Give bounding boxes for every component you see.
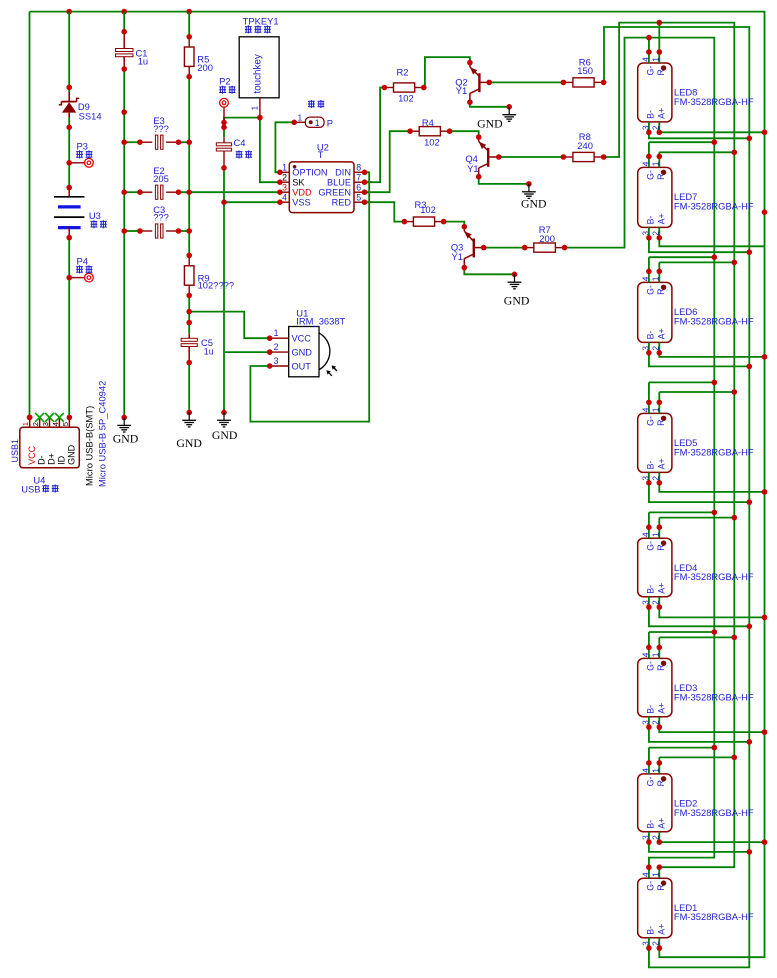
svg-text:1: 1: [282, 163, 287, 173]
svg-text:3: 3: [274, 356, 279, 366]
svg-text:5: 5: [61, 422, 70, 426]
svg-text:GND: GND: [504, 293, 530, 307]
svg-text:1: 1: [651, 161, 661, 166]
svg-text:102: 102: [424, 137, 440, 148]
svg-text:FM-3528RGBA-HF: FM-3528RGBA-HF: [674, 691, 754, 702]
svg-text:IRM_3638T: IRM_3638T: [296, 316, 345, 327]
svg-text:GND: GND: [477, 117, 503, 131]
svg-text:2: 2: [651, 125, 661, 130]
svg-text:4: 4: [640, 768, 650, 773]
svg-text:1: 1: [250, 106, 260, 111]
svg-text:4: 4: [640, 57, 650, 62]
svg-text:8: 8: [356, 163, 361, 173]
svg-text:3: 3: [640, 125, 650, 130]
svg-text:A+: A+: [657, 703, 667, 714]
svg-text:5: 5: [356, 193, 361, 203]
svg-text:G-: G-: [646, 881, 656, 891]
svg-text:G-: G-: [646, 285, 656, 295]
svg-text:1: 1: [651, 57, 661, 62]
svg-text:3: 3: [41, 422, 50, 426]
svg-text:4: 4: [640, 652, 650, 657]
svg-text:A+: A+: [657, 818, 667, 829]
svg-text:6: 6: [356, 183, 361, 193]
svg-text:FM-3528RGBA-HF: FM-3528RGBA-HF: [674, 315, 754, 326]
svg-text:102????: 102????: [198, 280, 235, 291]
svg-text:???: ???: [153, 123, 169, 134]
svg-text:Y1: Y1: [452, 251, 463, 262]
svg-text:A+: A+: [657, 108, 667, 119]
svg-text:2: 2: [651, 346, 661, 351]
svg-text:SS14: SS14: [79, 110, 102, 121]
svg-text:1: 1: [651, 276, 661, 281]
svg-text:3: 3: [282, 183, 287, 193]
svg-text:VCC: VCC: [27, 445, 37, 465]
svg-text:2: 2: [651, 835, 661, 840]
svg-text:TPKEY1: TPKEY1: [243, 15, 279, 26]
svg-text:G-: G-: [646, 416, 656, 426]
svg-text:3: 3: [640, 476, 650, 481]
svg-text:FM-3528RGBA-HF: FM-3528RGBA-HF: [674, 571, 754, 582]
svg-text:Y1: Y1: [467, 163, 478, 174]
svg-text:2: 2: [31, 422, 40, 426]
svg-text:1: 1: [315, 118, 320, 128]
svg-text:P2: P2: [219, 76, 230, 87]
svg-text:ID: ID: [57, 455, 67, 465]
svg-text:B-: B-: [646, 585, 656, 594]
svg-text:2: 2: [651, 941, 661, 946]
svg-text:T: T: [318, 149, 324, 160]
svg-text:4: 4: [282, 193, 287, 203]
svg-text:A+: A+: [657, 213, 667, 224]
svg-text:B-: B-: [646, 216, 656, 225]
svg-text:3: 3: [640, 346, 650, 351]
svg-text:1u: 1u: [204, 347, 214, 357]
svg-text:OPTION: OPTION: [292, 168, 327, 178]
svg-text:4: 4: [640, 161, 650, 166]
svg-text:R2: R2: [397, 66, 409, 77]
svg-text:OUT: OUT: [292, 361, 312, 371]
svg-text:1: 1: [651, 872, 661, 877]
svg-text:3: 3: [640, 941, 650, 946]
svg-text:205: 205: [153, 173, 169, 184]
svg-text:3: 3: [640, 600, 650, 605]
svg-text:FM-3528RGBA-HF: FM-3528RGBA-HF: [674, 807, 754, 818]
svg-text:GND: GND: [113, 432, 139, 446]
svg-text:DIN: DIN: [335, 168, 351, 178]
svg-text:1: 1: [651, 768, 661, 773]
svg-text:Y1: Y1: [456, 85, 467, 96]
svg-text:B-: B-: [646, 926, 656, 935]
svg-text:P4: P4: [77, 255, 88, 266]
svg-text:A+: A+: [657, 328, 667, 339]
svg-text:3: 3: [640, 720, 650, 725]
svg-text:BLUE: BLUE: [327, 178, 351, 188]
svg-text:102: 102: [420, 204, 436, 215]
svg-text:2: 2: [651, 231, 661, 236]
svg-text:G-: G-: [646, 66, 656, 76]
svg-text:FM-3528RGBA-HF: FM-3528RGBA-HF: [674, 911, 754, 922]
svg-text:102: 102: [398, 93, 414, 104]
svg-text:Micro USB-B 5P_C40942: Micro USB-B 5P_C40942: [97, 381, 108, 487]
svg-text:2: 2: [651, 476, 661, 481]
svg-text:FM-3528RGBA-HF: FM-3528RGBA-HF: [674, 200, 754, 211]
svg-text:2: 2: [282, 173, 287, 183]
svg-text:C4: C4: [234, 137, 246, 148]
svg-text:1: 1: [298, 112, 303, 122]
svg-text:???: ???: [153, 212, 169, 223]
svg-text:G-: G-: [646, 777, 656, 787]
svg-text:VDD: VDD: [292, 188, 312, 198]
svg-text:A+: A+: [657, 458, 667, 469]
svg-text:1: 1: [651, 652, 661, 657]
svg-text:FM-3528RGBA-HF: FM-3528RGBA-HF: [674, 96, 754, 107]
svg-text:7: 7: [356, 173, 361, 183]
svg-text:GREEN: GREEN: [318, 188, 351, 198]
svg-text:RED: RED: [332, 198, 352, 208]
svg-text:150: 150: [577, 65, 593, 76]
svg-text:GND: GND: [521, 196, 547, 210]
svg-text:4: 4: [640, 276, 650, 281]
svg-text:3: 3: [640, 835, 650, 840]
svg-text:U3: U3: [89, 210, 101, 221]
svg-text:1: 1: [651, 407, 661, 412]
svg-text:VCC: VCC: [292, 334, 312, 344]
svg-text:1u: 1u: [138, 56, 148, 67]
svg-text:B-: B-: [646, 820, 656, 829]
svg-text:1: 1: [651, 532, 661, 537]
svg-text:P: P: [327, 117, 333, 128]
svg-text:2: 2: [651, 600, 661, 605]
svg-text:4: 4: [640, 532, 650, 537]
svg-text:2: 2: [651, 720, 661, 725]
svg-text:USB1: USB1: [10, 439, 20, 463]
svg-text:B-: B-: [646, 461, 656, 470]
svg-text:2: 2: [274, 342, 279, 352]
svg-text:240: 240: [577, 140, 593, 151]
svg-text:P3: P3: [77, 140, 88, 151]
svg-text:SK: SK: [292, 178, 305, 188]
svg-text:B-: B-: [646, 705, 656, 714]
svg-text:Micro USB-B(SMT): Micro USB-B(SMT): [84, 406, 95, 486]
svg-text:VSS: VSS: [292, 198, 310, 208]
svg-text:D-: D-: [37, 455, 47, 465]
svg-text:D+: D+: [47, 453, 57, 465]
svg-text:GND: GND: [67, 444, 77, 465]
svg-text:3: 3: [640, 231, 650, 236]
svg-text:B-: B-: [646, 110, 656, 119]
svg-text:G-: G-: [646, 170, 656, 180]
svg-text:A+: A+: [657, 583, 667, 594]
svg-text:G-: G-: [646, 541, 656, 551]
svg-text:GND: GND: [212, 428, 238, 442]
svg-text:GND: GND: [292, 348, 313, 358]
svg-text:4: 4: [51, 422, 60, 426]
svg-text:B-: B-: [646, 331, 656, 340]
svg-text:G-: G-: [646, 661, 656, 671]
svg-text:R4: R4: [422, 117, 434, 128]
svg-text:200: 200: [539, 233, 555, 244]
svg-text:USB: USB: [21, 483, 40, 494]
svg-text:GND: GND: [176, 436, 202, 450]
svg-text:4: 4: [640, 407, 650, 412]
svg-text:4: 4: [640, 872, 650, 877]
svg-text:1: 1: [274, 328, 279, 338]
svg-text:A+: A+: [657, 924, 667, 935]
svg-text:FM-3528RGBA-HF: FM-3528RGBA-HF: [674, 446, 754, 457]
svg-text:touchkey: touchkey: [252, 54, 263, 93]
svg-text:200: 200: [197, 62, 213, 73]
svg-text:1: 1: [21, 422, 30, 426]
